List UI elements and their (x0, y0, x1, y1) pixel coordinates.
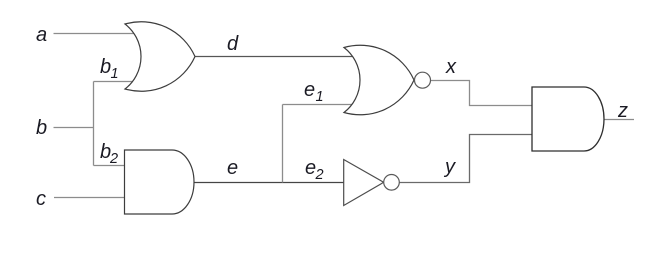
OR gate U1 (inputs a, b1; output d) (125, 22, 195, 92)
wire b1 branch (94, 81, 141, 83)
wire b2 branch (94, 165, 127, 167)
svg-text:c: c (36, 188, 46, 210)
svg-text:e: e (227, 157, 238, 179)
wire z output (604, 119, 634, 121)
NOR gate U3 inversion bubble (415, 72, 431, 88)
AND gate U5 (inputs x, y; output z) (532, 87, 604, 151)
svg-text:e: e (304, 79, 315, 101)
inverter U4 inversion bubble (384, 175, 400, 191)
svg-text:b: b (36, 117, 47, 139)
wire vertical b branch (93, 82, 95, 166)
wire d net (195, 56, 354, 58)
svg-text:1: 1 (316, 89, 324, 105)
svg-text:a: a (36, 24, 47, 46)
wire e1 branch (283, 104, 354, 106)
wire y net from inverter output (399, 135, 532, 183)
svg-text:2: 2 (315, 167, 324, 183)
svg-text:b: b (100, 56, 111, 78)
wire b input (54, 127, 95, 129)
wire e net (194, 182, 345, 184)
inverter U4 triangle (input e2; output y) (344, 160, 384, 206)
wire a input (54, 33, 141, 35)
svg-text:d: d (227, 33, 239, 55)
svg-text:1: 1 (111, 66, 119, 82)
svg-text:e: e (305, 157, 316, 179)
wire x net from NOR output (431, 81, 533, 106)
svg-text:y: y (443, 156, 456, 178)
wire c input (54, 197, 126, 199)
wire vertical e branch (282, 105, 284, 183)
NOR gate U3 body (inputs d, e1; output x) (344, 45, 414, 115)
svg-text:z: z (617, 100, 628, 122)
svg-text:2: 2 (109, 151, 118, 167)
svg-text:x: x (445, 56, 457, 78)
AND gate U2 (inputs b2, c; output e) (125, 150, 195, 214)
